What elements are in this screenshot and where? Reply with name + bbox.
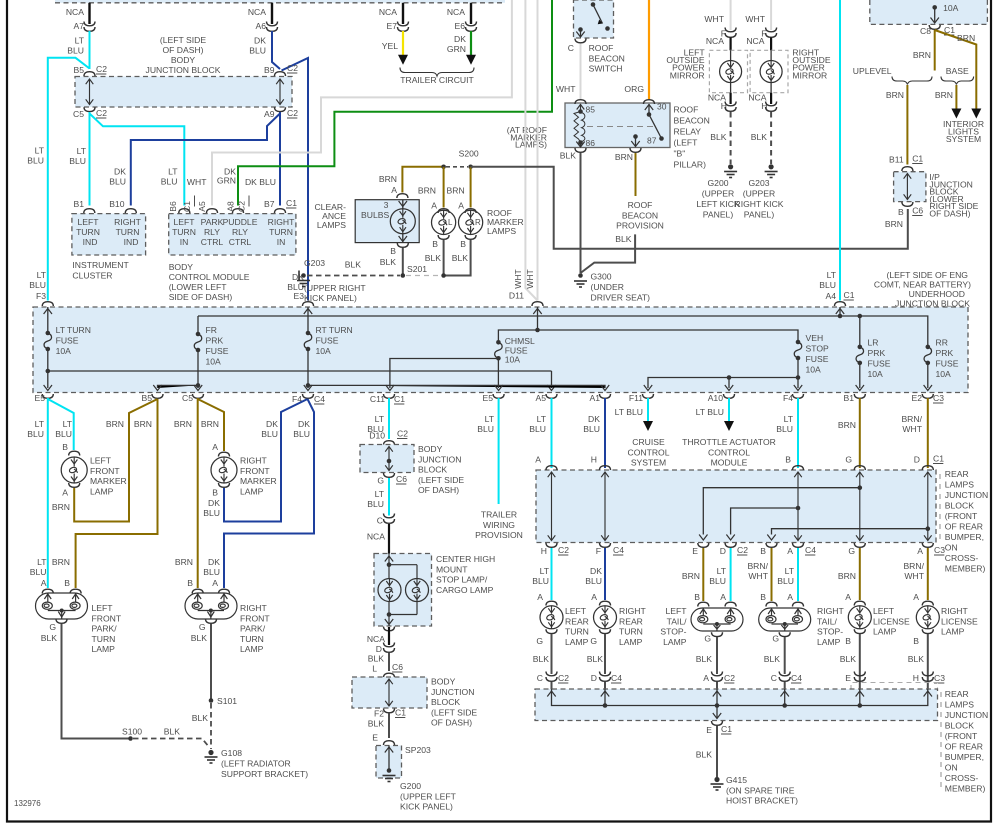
svg-text:MODULE: MODULE [711, 458, 748, 468]
svg-text:LAMP: LAMP [240, 644, 264, 654]
svg-text:IND: IND [124, 237, 139, 247]
RR PRK fuse leg [927, 363, 929, 388]
svg-text:TRAILER CIRCUIT: TRAILER CIRCUIT [400, 75, 474, 85]
svg-text:LEFT: LEFT [92, 603, 114, 613]
svg-text:C6: C6 [912, 206, 923, 216]
wire BRN C5 to right park/turn B [197, 398, 199, 588]
LT TURN fuse leg [47, 307, 49, 388]
svg-text:CTRL: CTRL [229, 237, 252, 247]
svg-text:FUSE: FUSE [806, 354, 829, 364]
svg-text:RIGHT: RIGHT [240, 603, 267, 613]
rear JB label bracket [939, 474, 941, 540]
instrument cluster box [72, 214, 146, 255]
svg-text:B: B [760, 592, 766, 602]
svg-text:ROOF: ROOF [674, 105, 699, 115]
wire NCA to E7 [402, 3, 404, 24]
wire DK BLU to right rear turn lamp [604, 548, 606, 600]
svg-text:G108: G108 [221, 748, 242, 758]
wire WHT brake feed left to D11 [525, 0, 537, 301]
svg-text:BLU: BLU [161, 177, 178, 187]
svg-text:CENTER HIGH: CENTER HIGH [436, 554, 495, 564]
svg-text:PRK: PRK [868, 348, 886, 358]
I/P junction block pass-through [904, 174, 912, 200]
rear JB2 bus [552, 689, 928, 706]
svg-text:B: B [913, 636, 919, 646]
svg-text:C8: C8 [920, 26, 931, 36]
RT TURN fuse leg [307, 307, 309, 388]
connector right license B [922, 629, 933, 633]
connector left park/turn A [42, 589, 53, 593]
wire LT BLU rear A to right tail A [797, 548, 799, 601]
wire DK BLU A6 to B9 [272, 31, 280, 69]
svg-text:LAMP: LAMP [240, 486, 264, 496]
svg-text:BLK: BLK [345, 260, 362, 270]
svg-text:B5: B5 [73, 65, 84, 75]
wire DK BLU A9 to B10 [131, 114, 280, 206]
svg-text:NCA: NCA [66, 7, 84, 17]
svg-text:BLU: BLU [261, 429, 278, 439]
svg-text:BLU: BLU [367, 499, 384, 509]
connector relay 87 bottom [630, 148, 641, 152]
svg-text:BLU: BLU [27, 156, 44, 166]
wire BRN/WHT rear A to right license A [927, 548, 929, 600]
connector A5 rear [546, 394, 557, 398]
svg-text:B: B [845, 636, 851, 646]
svg-text:B: B [785, 455, 791, 465]
connector rear B bottom [766, 543, 777, 547]
rear JB pass-through G [856, 472, 864, 541]
svg-text:BLK: BLK [425, 253, 442, 263]
wire BLK dashed S101 to G108 [210, 703, 212, 749]
svg-text:TURN: TURN [92, 634, 116, 644]
splice pack SP203 box [376, 746, 402, 779]
cut-off fuse box top right [870, 0, 988, 24]
connector B1 rear [854, 394, 865, 398]
svg-text:86: 86 [586, 138, 596, 148]
wire BRN base to interior lights [955, 85, 957, 109]
svg-text:ROOF: ROOF [628, 200, 653, 210]
svg-text:NCA: NCA [447, 7, 465, 17]
svg-text:C2: C2 [96, 108, 107, 118]
svg-text:LEFT: LEFT [565, 606, 587, 616]
svg-text:10A: 10A [206, 357, 222, 367]
connector right tail A [793, 602, 804, 606]
svg-text:A: A [913, 592, 919, 602]
svg-text:E2: E2 [911, 393, 922, 403]
arrow cruise control [643, 421, 653, 431]
svg-text:BRN: BRN [52, 557, 70, 567]
svg-text:MIRROR: MIRROR [792, 70, 827, 80]
svg-text:"B": "B" [674, 149, 686, 159]
svg-text:UPLEVEL: UPLEVEL [853, 66, 892, 76]
connector right tail B [766, 602, 777, 606]
svg-text:LT: LT [37, 557, 47, 567]
svg-text:LICENSE: LICENSE [941, 616, 978, 626]
svg-text:CROSS-: CROSS- [945, 553, 979, 563]
svg-text:30: 30 [657, 102, 667, 112]
splice S200 [441, 165, 446, 170]
connector E sp203 [384, 741, 395, 745]
svg-text:LAMP: LAMP [90, 486, 114, 496]
svg-text:G: G [49, 622, 56, 632]
connector rear D top [922, 466, 933, 470]
connector rear A bottom [793, 543, 804, 547]
svg-text:SYSTEM: SYSTEM [631, 458, 666, 468]
ground G203 [301, 273, 306, 278]
wire NCA chmsl to D [388, 627, 390, 645]
wire LT BLU E5 to left park/turn A [47, 398, 49, 588]
svg-text:PROVISION: PROVISION [616, 221, 664, 231]
connector D C4 right rear [600, 672, 611, 682]
svg-text:LAMP: LAMP [873, 627, 897, 637]
wire BLK right rear turn to D [604, 634, 606, 674]
svg-text:STOP: STOP [806, 344, 830, 354]
svg-text:RIGHT: RIGHT [941, 606, 968, 616]
connector left front marker B [69, 451, 80, 455]
connector left roof marker A [438, 209, 449, 213]
svg-text:A5: A5 [197, 201, 207, 212]
svg-text:A9: A9 [264, 109, 275, 119]
connector E6 [466, 22, 477, 32]
svg-text:D: D [720, 546, 726, 556]
svg-text:BRN: BRN [838, 420, 856, 430]
connector B6 C1 [179, 209, 190, 213]
connector D11 [532, 302, 543, 306]
svg-text:LAMPS: LAMPS [487, 226, 516, 236]
svg-text:BLK: BLK [840, 654, 857, 664]
ground G108 [208, 750, 213, 755]
svg-text:C3: C3 [934, 673, 945, 683]
VEH STOP branches to F11 A10 [796, 375, 801, 380]
svg-text:G203: G203 [304, 258, 325, 268]
fuse FR PRK 10A [196, 332, 201, 337]
connector left park/turn G [56, 619, 67, 623]
svg-text:G200: G200 [400, 781, 421, 791]
svg-text:PANEL): PANEL) [703, 210, 734, 220]
svg-text:F: F [596, 546, 601, 556]
svg-text:LT: LT [35, 419, 45, 429]
connector A8 C2 [233, 209, 244, 213]
connector rear A2 bottom [922, 543, 933, 547]
feed line top [198, 315, 840, 317]
svg-text:BUMPER,: BUMPER, [945, 532, 984, 542]
svg-text:BODY: BODY [431, 677, 456, 687]
svg-text:LT: LT [63, 419, 73, 429]
connector right park/turn A [219, 589, 230, 593]
svg-text:(LEFT SIDE: (LEFT SIDE [431, 707, 477, 717]
svg-text:BLU: BLU [776, 424, 793, 434]
wire LT BLU F4 to rear B [797, 398, 799, 468]
connector clearance lamps A [397, 194, 408, 198]
svg-text:ON: ON [945, 543, 958, 553]
svg-text:C11: C11 [370, 394, 385, 404]
svg-text:DK: DK [590, 566, 602, 576]
svg-text:BLK: BLK [615, 234, 632, 244]
svg-text:BLK: BLK [164, 727, 181, 737]
svg-text:BRN: BRN [935, 90, 953, 100]
svg-text:IN: IN [277, 237, 286, 247]
svg-text:BASE: BASE [946, 66, 969, 76]
svg-text:S201: S201 [407, 264, 427, 274]
fuse LR PRK 10A [858, 345, 863, 350]
svg-text:BLK: BLK [368, 654, 385, 664]
svg-text:LEFT: LEFT [77, 217, 99, 227]
wire LT BLU C5 to B6 [90, 114, 185, 206]
svg-text:MARKER: MARKER [240, 476, 277, 486]
rear JB pass-through D [924, 472, 932, 541]
svg-text:LAMP: LAMP [663, 637, 687, 647]
svg-text:OF DASH): OF DASH) [418, 485, 459, 495]
svg-text:A6: A6 [255, 21, 266, 31]
svg-text:H: H [591, 455, 597, 465]
svg-text:C: C [537, 673, 543, 683]
svg-text:G: G [704, 634, 711, 644]
svg-text:BLU: BLU [709, 576, 726, 586]
svg-text:BLU: BLU [203, 567, 220, 577]
svg-text:BEACON: BEACON [622, 210, 658, 220]
svg-text:C2: C2 [96, 64, 107, 74]
svg-text:(LEFT: (LEFT [674, 138, 699, 148]
svg-text:A: A [703, 673, 709, 683]
rear lamps junction block (upper) box [536, 470, 936, 543]
svg-text:LAMP: LAMP [92, 644, 116, 654]
svg-text:REAR: REAR [619, 616, 643, 626]
svg-text:FUSE: FUSE [56, 336, 79, 346]
svg-text:REAR: REAR [565, 616, 589, 626]
connector left front marker A [69, 483, 80, 487]
connector left rear turn G [546, 629, 557, 633]
svg-text:S200: S200 [459, 149, 479, 159]
rear JB branch B to D [731, 508, 798, 535]
svg-text:MIRROR: MIRROR [670, 70, 705, 80]
svg-text:BRN/: BRN/ [901, 414, 922, 424]
svg-text:(UNDER: (UNDER [591, 282, 624, 292]
svg-text:(LEFT RADIATOR: (LEFT RADIATOR [221, 759, 291, 769]
svg-text:B: B [212, 488, 218, 498]
svg-text:LT: LT [75, 36, 85, 46]
svg-text:RIGHT: RIGHT [114, 217, 141, 227]
svg-text:F2: F2 [374, 709, 384, 719]
splice S201 [401, 273, 406, 278]
connector right rear turn A [600, 601, 611, 605]
svg-text:BRN: BRN [134, 419, 152, 429]
svg-text:BLK: BLK [380, 257, 397, 267]
svg-text:L: L [372, 664, 377, 674]
svg-text:FUSE: FUSE [936, 359, 959, 369]
connector A6 [267, 22, 278, 32]
wire LT BLU A10 to throttle actuator [728, 398, 730, 421]
svg-text:B11: B11 [889, 155, 904, 165]
svg-text:BLU: BLU [293, 429, 310, 439]
connector L C6 [384, 673, 395, 677]
svg-text:C2: C2 [287, 108, 298, 118]
svg-text:A7: A7 [73, 21, 84, 31]
I/P junction block box [894, 172, 926, 202]
svg-text:D: D [591, 673, 597, 683]
svg-text:C1: C1 [182, 201, 192, 212]
svg-text:HOIST BRACKET): HOIST BRACKET) [726, 796, 798, 806]
svg-text:BLU: BLU [203, 508, 220, 518]
svg-text:DRIVER SEAT): DRIVER SEAT) [591, 293, 651, 303]
svg-text:BLK: BLK [908, 654, 925, 664]
svg-text:C2: C2 [397, 429, 408, 439]
bulb left roof marker lamp [432, 210, 456, 234]
bulb left front marker lamp [61, 457, 87, 483]
svg-text:CRUISE: CRUISE [632, 437, 665, 447]
svg-text:BRN: BRN [418, 186, 436, 196]
wire BLK/BRN S200 run to I/P junction block [471, 167, 908, 249]
connector H C3 right license [922, 672, 933, 682]
svg-text:E: E [372, 733, 378, 743]
connector F left mirror [725, 28, 736, 38]
wire LT BLU C5 to B1 [89, 112, 91, 206]
svg-text:A5: A5 [535, 393, 546, 403]
svg-text:C: C [771, 673, 777, 683]
connector left license B [854, 629, 865, 633]
svg-text:COMT, NEAR BATTERY): COMT, NEAR BATTERY) [874, 280, 971, 290]
svg-text:C1: C1 [912, 154, 923, 164]
D11 leg [537, 307, 539, 330]
connector H left mirror [725, 102, 736, 112]
svg-text:LAMPS: LAMPS [945, 480, 974, 490]
connector C C4 right tail [779, 672, 790, 682]
rear JB2 entry left license [859, 689, 861, 706]
CHMSL fuse branch to C11 [390, 359, 499, 389]
svg-text:B: B [432, 239, 438, 249]
wire LT BLU B5 branch to LT TURN fuse F3 [48, 58, 90, 301]
svg-text:BLU: BLU [585, 576, 602, 586]
svg-text:C4: C4 [613, 545, 624, 555]
connector A C2 left tail [712, 672, 723, 682]
svg-text:(FRONT: (FRONT [945, 731, 978, 741]
connector E7 [398, 22, 409, 32]
svg-text:BRN: BRN [913, 50, 931, 60]
svg-text:RIGHT: RIGHT [817, 606, 844, 616]
svg-text:G: G [772, 634, 779, 644]
svg-text:OF DASH): OF DASH) [929, 209, 970, 219]
svg-text:LEFT: LEFT [665, 606, 687, 616]
lamp left tail/stop [691, 608, 743, 631]
fuse RT TURN 10A [306, 331, 311, 336]
svg-text:LAMP: LAMP [941, 627, 965, 637]
connector grouping C3 dashes [851, 683, 938, 691]
svg-text:CARGO LAMP: CARGO LAMP [436, 585, 494, 595]
svg-text:VEH: VEH [806, 333, 824, 343]
connector B11 C1 [902, 167, 913, 171]
svg-text:BLK: BLK [710, 132, 727, 142]
connector chmsl bottom [384, 627, 395, 631]
svg-text:BLU: BLU [55, 429, 72, 439]
svg-text:TURN: TURN [116, 227, 140, 237]
wire BLK left park/turn G to S100 [62, 624, 129, 739]
rear JB2 entry right license [924, 691, 932, 697]
svg-text:E: E [706, 725, 712, 735]
wire BLK dashed S100 to G108 [133, 739, 210, 748]
svg-text:A: A [391, 185, 397, 195]
wire BLK left rear turn to C [551, 634, 553, 674]
svg-text:LT BLU: LT BLU [696, 407, 724, 417]
svg-text:OF DASH): OF DASH) [162, 45, 203, 55]
svg-text:CONTROL: CONTROL [708, 447, 750, 457]
svg-text:PUDDLE: PUDDLE [223, 217, 258, 227]
fuse RR PRK 10A [926, 345, 931, 350]
wire LT BLU F11 to cruise control [647, 398, 649, 421]
wire BRN C8 down to split [934, 30, 936, 71]
fuse CHMSL 10A [496, 340, 501, 345]
svg-text:A: A [458, 201, 464, 211]
branch to A5 exit [551, 371, 553, 388]
A4 entry leg [839, 307, 841, 316]
svg-text:A: A [591, 592, 597, 602]
bulb left mirror lamp [720, 61, 742, 83]
wire NCA right mirror [770, 38, 772, 51]
connector right roof marker B [465, 235, 476, 239]
svg-text:GRN: GRN [217, 176, 236, 186]
svg-text:S100: S100 [122, 727, 142, 737]
svg-text:LT: LT [827, 270, 837, 280]
svg-text:G: G [590, 636, 597, 646]
svg-text:FR: FR [206, 325, 217, 335]
fuse LT TURN 10A [46, 331, 51, 336]
svg-text:OF REAR: OF REAR [945, 742, 983, 752]
svg-text:E7: E7 [386, 21, 397, 31]
svg-text:H: H [913, 673, 919, 683]
FR PRK branch to B5 [196, 383, 201, 388]
svg-text:ON: ON [945, 763, 958, 773]
svg-text:(LEFT SIDE: (LEFT SIDE [418, 475, 464, 485]
wire ORG to relay 30 [648, 0, 650, 99]
wire DK GRN puddle relay control A8 run [238, 0, 552, 206]
svg-text:RLY: RLY [204, 227, 220, 237]
svg-text:87: 87 [647, 136, 657, 146]
svg-text:A: A [41, 578, 47, 588]
wire BLK left tail G to A [716, 637, 718, 674]
clearance lamps internal leads [402, 200, 404, 243]
svg-text:A4: A4 [825, 291, 836, 301]
connector F2 C1 [384, 709, 395, 713]
svg-text:10A: 10A [868, 369, 884, 379]
D11 feed line to CHMSL and VEH STOP fuses [498, 330, 798, 342]
svg-text:LT TURN: LT TURN [56, 325, 91, 335]
wire LT BLU rear D to left tail A [730, 548, 732, 601]
wire BLK right roof marker B to S201 [444, 240, 471, 276]
svg-text:C6: C6 [396, 474, 407, 484]
wire BLK left roof marker B to S201 [443, 240, 445, 276]
svg-text:RIGHT KICK: RIGHT KICK [734, 199, 783, 209]
connector E5 left [42, 394, 53, 398]
clearance lamps box [355, 200, 419, 243]
wire BLK right tail G to C [784, 637, 786, 674]
svg-text:NCA: NCA [367, 532, 385, 542]
svg-text:B9: B9 [264, 65, 275, 75]
wire BRN C8 to base arrow right [935, 30, 977, 109]
svg-text:BLU: BLU [109, 177, 126, 187]
svg-text:BLK: BLK [587, 654, 604, 664]
svg-text:C1: C1 [721, 724, 732, 734]
ground G200 kick panel [383, 776, 396, 782]
bulb right roof marker lamp [459, 210, 483, 234]
wire NCA left mirror lower [729, 93, 731, 104]
svg-text:ORG: ORG [624, 84, 644, 94]
chmsl internal leads [389, 554, 417, 627]
svg-text:H: H [541, 546, 547, 556]
rear JB pass-through B-A [794, 472, 802, 541]
svg-text:LT: LT [537, 414, 547, 424]
svg-text:F3: F3 [36, 291, 46, 301]
brace uplevel [892, 77, 932, 85]
svg-text:SWITCH: SWITCH [589, 64, 623, 74]
arrow trailer green [466, 55, 476, 65]
